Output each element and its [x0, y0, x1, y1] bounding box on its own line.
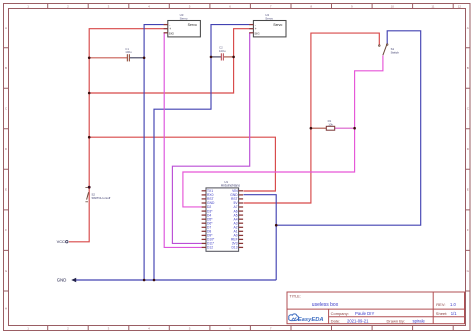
svg-text:11: 11	[431, 5, 434, 9]
EasyEDA logo	[289, 314, 324, 323]
S1 terminals	[379, 45, 381, 47]
svg-text:SIG: SIG	[254, 31, 260, 35]
svg-text:F: F	[467, 228, 469, 232]
svg-text:TITLE:: TITLE:	[290, 295, 301, 299]
wire dark navy C1 right segment	[130, 57, 145, 59]
net flag GND	[57, 278, 76, 283]
arduino U1 right pins	[239, 191, 244, 248]
svg-text:10: 10	[391, 5, 395, 9]
svg-text:1.0: 1.0	[450, 302, 456, 307]
junction GND rail x154	[153, 279, 156, 282]
junction GND rail x144	[143, 279, 146, 282]
C1 plates	[126, 54, 128, 61]
svg-text:EasyEDA: EasyEDA	[298, 317, 324, 323]
svg-text:Servo: Servo	[265, 17, 273, 21]
R1 body	[326, 126, 334, 130]
arduino U1 left pins	[202, 191, 206, 248]
wire dark navy C2 left segment	[211, 56, 221, 58]
wire blue GND horizontal y=280	[76, 279, 276, 281]
S2 terminals	[85, 186, 88, 188]
svg-text:Servo: Servo	[273, 23, 282, 27]
title block	[287, 292, 465, 324]
svg-text:Servo: Servo	[188, 23, 197, 27]
wire purple U4 SIG to D11	[172, 33, 249, 244]
wire red C1 left segment	[89, 57, 127, 59]
U3 pin - (minus)	[164, 24, 168, 26]
arduino U1 right pin names	[230, 189, 238, 250]
junction VCC branch y93	[88, 92, 91, 95]
wire pink S1 common / R1 to D2	[183, 55, 383, 207]
svg-text:Switch: Switch	[391, 51, 400, 55]
svg-text:H: H	[5, 306, 7, 310]
junction GND/C1 right	[143, 57, 146, 60]
S2 blade	[87, 192, 89, 199]
svg-text:SIG: SIG	[169, 31, 175, 35]
wire blue vertical x=144.1 to U3 top pin	[144, 25, 164, 280]
svg-text:REV:: REV:	[436, 302, 445, 307]
svg-text:100u: 100u	[219, 49, 226, 53]
U4 pin SIG	[249, 32, 253, 34]
wire red 5V / R1 / S1 top path	[244, 33, 380, 203]
svg-text:D13: D13	[232, 246, 238, 250]
svg-text:D12: D12	[207, 246, 213, 250]
capacitor C1	[125, 47, 132, 62]
svg-text:GND: GND	[57, 278, 67, 283]
svg-text:12: 12	[458, 5, 462, 9]
switch S1	[379, 44, 400, 55]
wire magenta U3 SIG to D12	[164, 33, 201, 248]
U4 pin + (plus)	[249, 28, 253, 30]
svg-text:Sheet:: Sheet:	[436, 311, 448, 316]
svg-text:SWITCH on/off: SWITCH on/off	[92, 196, 111, 200]
wire red branch y=137.2 to U1 VIN	[89, 137, 275, 191]
svg-text:E: E	[5, 188, 7, 192]
arduino U1 left pin names	[207, 189, 215, 250]
svg-text:ArduinoNano: ArduinoNano	[221, 184, 240, 188]
svg-text:Paule DIY: Paule DIY	[355, 311, 374, 316]
U4 pin - (minus)	[249, 24, 253, 26]
svg-text:Servo: Servo	[180, 17, 188, 21]
svg-text:spirale: spirale	[413, 318, 426, 323]
junction GND branch to S1	[275, 224, 278, 227]
svg-text:100u: 100u	[125, 50, 132, 54]
svg-text:Company:: Company:	[331, 311, 349, 316]
U3 pin + (plus)	[164, 28, 168, 30]
svg-text:Drawn By:: Drawn By:	[387, 318, 405, 323]
resistor R1	[311, 119, 355, 130]
junction C2 right	[232, 56, 235, 59]
svg-text:1/1: 1/1	[451, 311, 457, 316]
junction C2 left	[210, 56, 213, 59]
svg-text:2021-09-21: 2021-09-21	[347, 318, 369, 323]
svg-text:B: B	[467, 66, 469, 70]
svg-text:B: B	[5, 66, 7, 70]
S1 blade	[383, 45, 387, 56]
junction R1 left	[310, 127, 313, 130]
wire blue vertical x=154 to U4 top pin	[154, 25, 249, 280]
wire blue branch y=225 to S1	[276, 31, 421, 225]
wire red-brown C2 right segment	[224, 56, 234, 58]
switch S2	[85, 186, 110, 202]
svg-text:E: E	[467, 188, 469, 192]
junction VCC branch y137	[88, 136, 91, 139]
wire red branch y=93 to U4 + pin	[89, 29, 249, 93]
servo U4	[249, 13, 286, 37]
junction R1 right	[353, 127, 356, 130]
svg-text:VCC: VCC	[57, 239, 65, 244]
wire blue GND riser to U1 GND pin	[244, 195, 277, 280]
net flag VCC	[57, 239, 68, 244]
svg-text:A: A	[5, 26, 7, 30]
U3 pin SIG	[164, 32, 168, 34]
junction VCC/C1 left	[88, 57, 91, 60]
S2 terminal dot	[88, 186, 91, 189]
svg-text:10k: 10k	[328, 123, 333, 127]
capacitor C2	[219, 46, 226, 61]
svg-text:F: F	[5, 228, 7, 232]
wire VCC red: VCC flag to U3 + pin (vertical x=89.2, horizontal y=28.7)	[69, 29, 164, 242]
arduino U1	[206, 180, 240, 251]
svg-text:A: A	[467, 26, 469, 30]
servo U3	[164, 13, 201, 37]
C2 plates	[220, 53, 222, 60]
svg-text:useless box: useless box	[312, 302, 339, 308]
svg-text:Date:: Date:	[331, 318, 341, 323]
